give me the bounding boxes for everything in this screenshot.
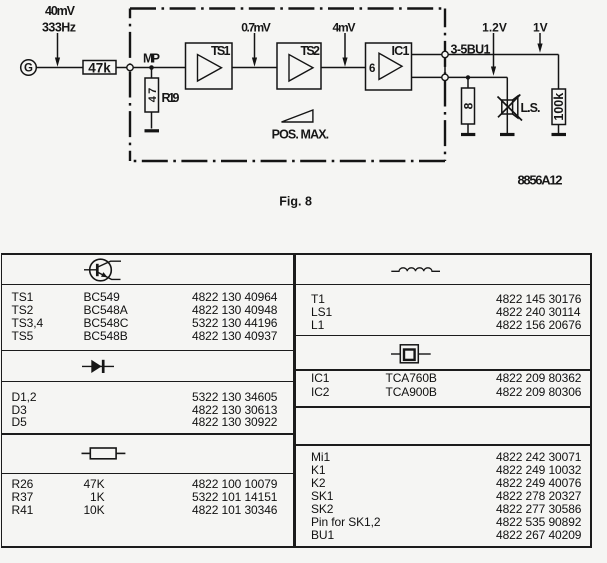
svg-text:TS1: TS1 (211, 44, 231, 58)
svg-text:333Hz: 333Hz (42, 21, 76, 35)
svg-text:1.2V: 1.2V (482, 20, 507, 34)
svg-text:G: G (24, 63, 33, 75)
svg-text:6: 6 (369, 63, 375, 75)
svg-text:8: 8 (461, 102, 475, 109)
svg-text:100k: 100k (552, 93, 566, 121)
svg-text:8856A12: 8856A12 (518, 172, 563, 187)
svg-text:MP: MP (143, 52, 160, 66)
svg-text:TS2: TS2 (301, 44, 321, 58)
svg-text:Fig. 8: Fig. 8 (279, 195, 312, 209)
svg-text:L.S.: L.S. (521, 101, 541, 115)
svg-text:0.7mV: 0.7mV (241, 20, 271, 34)
svg-text:R19: R19 (162, 91, 180, 105)
svg-text:47k: 47k (88, 60, 111, 75)
svg-text:3-5BU1: 3-5BU1 (451, 43, 491, 57)
svg-text:1V: 1V (533, 20, 548, 34)
svg-text:POS. MAX.: POS. MAX. (272, 127, 330, 141)
svg-text:4mV: 4mV (333, 20, 356, 34)
svg-text:40mV: 40mV (45, 4, 76, 18)
svg-text:IC1: IC1 (392, 44, 410, 58)
